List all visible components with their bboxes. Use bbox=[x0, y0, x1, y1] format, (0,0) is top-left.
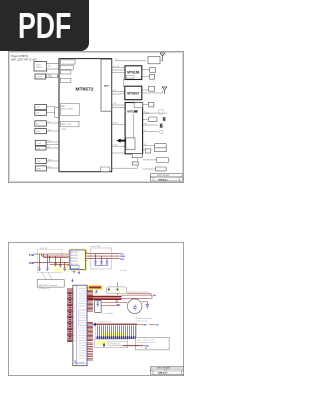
MT6322 sub box top bbox=[134, 103, 142, 108]
soc sub block emi bbox=[60, 70, 71, 74]
connector pins right upper bbox=[87, 288, 93, 311]
svg-text:YUV: YUV bbox=[48, 66, 51, 68]
connector top right highlight bbox=[88, 285, 102, 289]
wire from note box bbox=[127, 293, 151, 295]
wire labels page1 bbox=[47, 59, 147, 168]
wifi band filter bbox=[149, 86, 155, 91]
PDF badge bbox=[0, 0, 89, 51]
note box sim warning bbox=[37, 280, 64, 288]
wire pmic to audio parts bbox=[143, 105, 168, 132]
svg-text:arm: arm bbox=[104, 84, 109, 88]
sim connector body J300 bbox=[73, 285, 87, 366]
svg-text:CMOS: CMOS bbox=[36, 65, 41, 67]
pin header pins bbox=[97, 325, 135, 337]
connector glow bbox=[72, 284, 88, 366]
svg-text:CLK: CLK bbox=[115, 59, 118, 61]
yellow row in L1 bbox=[97, 341, 108, 345]
cap glow a bbox=[107, 288, 111, 292]
connector pin numbers col bbox=[74, 292, 76, 342]
MT6322 charger sub box bbox=[126, 138, 135, 150]
capacitor C302 bbox=[46, 268, 49, 271]
wire sim bbox=[46, 130, 59, 132]
soc sub block dsi bbox=[60, 78, 71, 82]
soc inner text bbox=[61, 105, 74, 131]
antenna ANT2 wifi bbox=[162, 87, 167, 94]
capacitor CA in box bbox=[108, 289, 110, 291]
gnd row bbox=[94, 264, 108, 266]
power bus thin pair bbox=[122, 295, 153, 298]
wire fem to ant1 bbox=[160, 60, 163, 62]
capacitor C303 bbox=[54, 264, 57, 267]
wire into battery bbox=[101, 302, 128, 305]
connector pins left field bbox=[67, 288, 93, 360]
wire keypad bbox=[46, 122, 59, 124]
block usb otg bbox=[35, 146, 46, 150]
svg-text:HS: HS bbox=[144, 130, 146, 132]
pin number specks bbox=[69, 293, 71, 342]
svg-text:V1.0: V1.0 bbox=[164, 370, 167, 372]
arm core column bbox=[101, 59, 112, 111]
microphone circle bbox=[159, 130, 162, 133]
svg-text:MSDC / SDIO: MSDC / SDIO bbox=[61, 124, 72, 126]
block memory LPDDR bbox=[35, 74, 46, 79]
vibrator box pair bbox=[155, 144, 167, 148]
small keypad led box bbox=[145, 149, 150, 153]
svg-text:SIM1/2: SIM1/2 bbox=[36, 131, 41, 133]
wire otg bbox=[46, 147, 59, 149]
MT6166 sub row bbox=[126, 76, 134, 79]
svg-text:AUDIO CODEC: AUDIO CODEC bbox=[61, 108, 74, 111]
sheet border page2 bbox=[8, 242, 183, 375]
wire soc audio bbox=[112, 123, 125, 125]
block camera bbox=[34, 62, 59, 171]
connector inner column divider bbox=[76, 286, 78, 366]
block gpio bbox=[35, 166, 46, 171]
PMIC MT6322 bbox=[125, 103, 143, 154]
leader line 1 bbox=[42, 272, 52, 280]
wire top bus verticals bbox=[39, 254, 68, 268]
svg-text:RF CTRL: RF CTRL bbox=[113, 66, 119, 68]
wire msdc bbox=[46, 142, 59, 145]
power bus bar 2 bbox=[87, 298, 122, 300]
svg-text:KEY: KEY bbox=[36, 123, 39, 125]
capacitor C310 bbox=[94, 262, 108, 265]
pin header top bus bbox=[96, 323, 137, 325]
title block page2 bbox=[150, 367, 183, 375]
headset bars bbox=[160, 123, 162, 128]
usb plug box bbox=[155, 167, 166, 171]
capacitor C304 bbox=[59, 264, 62, 267]
MT6322 inner divider bbox=[133, 114, 135, 139]
cap block box bbox=[95, 301, 101, 313]
soc sub block msdc bbox=[61, 121, 80, 127]
wire lcm bus bbox=[46, 107, 59, 113]
cluster box outline bbox=[38, 250, 63, 273]
cap glow b bbox=[116, 288, 120, 292]
page 1 schematic bbox=[8, 51, 184, 183]
soc sub block pmu if bbox=[101, 167, 110, 172]
wire ic right nets bbox=[87, 254, 120, 259]
svg-text:16B: 16B bbox=[29, 261, 34, 265]
wire top bus horizontals bbox=[42, 256, 69, 264]
wire mem vertical bbox=[123, 79, 125, 88]
svg-text:RCV: RCV bbox=[144, 111, 147, 113]
block sd card bbox=[35, 140, 46, 145]
svg-text:VMC: VMC bbox=[120, 259, 125, 261]
arrow to connector bbox=[93, 323, 96, 326]
yellow highlight row bbox=[103, 333, 126, 337]
svg-text:U301 TVS: U301 TVS bbox=[40, 248, 47, 250]
capacitor left of box bbox=[95, 290, 98, 293]
ic pins right bbox=[85, 252, 87, 261]
wire header to labels bbox=[137, 324, 156, 326]
wire top label bbox=[115, 60, 146, 62]
wire camera to SoC bbox=[47, 65, 60, 68]
svg-text:VB2: VB2 bbox=[117, 304, 121, 306]
sheet border page1 bbox=[8, 51, 183, 182]
ic esd array glow bbox=[69, 249, 86, 270]
wire memory to SoC bbox=[46, 75, 60, 77]
svg-text:Project: MT6572: Project: MT6572 bbox=[11, 55, 29, 58]
svg-text:MT6572 MOBILE: MT6572 MOBILE bbox=[157, 175, 169, 177]
capacitor C311 bbox=[100, 262, 103, 265]
wire battery right bbox=[142, 301, 148, 303]
svg-text:<SIM.Sch>: <SIM.Sch> bbox=[158, 372, 169, 375]
wire uart bbox=[46, 160, 59, 162]
block camera serial sub bbox=[47, 64, 60, 70]
rounded note box bbox=[106, 287, 127, 293]
decoupling group box bbox=[91, 248, 112, 269]
battery connector box bbox=[156, 158, 168, 163]
connector bottom notch bbox=[75, 360, 85, 363]
svg-text:<TOP.Sch>: <TOP.Sch> bbox=[158, 179, 169, 182]
wire net 17B bbox=[34, 253, 69, 255]
capacitor C320 bbox=[97, 301, 100, 307]
block sim bbox=[35, 129, 47, 134]
bottom box L2 bbox=[136, 337, 170, 350]
blue mark in L1 bbox=[103, 344, 105, 347]
bus joint box bbox=[55, 107, 59, 117]
wire rf1 to fem bbox=[142, 70, 150, 77]
connector inner signal rows bbox=[79, 289, 86, 359]
text project title bbox=[11, 55, 37, 61]
svg-text:IN3 OUT3: IN3 OUT3 bbox=[71, 258, 78, 260]
receiver circle bbox=[158, 109, 163, 114]
ic esd array U300 bbox=[70, 250, 85, 269]
SoC MT6572 bbox=[59, 59, 112, 172]
battery circle BT300 bbox=[127, 299, 142, 314]
rf saw filter bbox=[150, 68, 156, 73]
wire pmic right lower bbox=[135, 146, 156, 170]
svg-text:USB: USB bbox=[47, 146, 50, 148]
bottom box L1 bbox=[95, 339, 128, 348]
svg-text:KP: KP bbox=[48, 121, 50, 123]
small box lower mid bbox=[132, 162, 138, 165]
svg-text:SENSOR: SENSOR bbox=[36, 67, 43, 69]
power bus bar 1 bbox=[87, 296, 122, 298]
down arrow mark bbox=[72, 279, 74, 282]
antenna ANT1 bbox=[160, 53, 165, 61]
title2 top row fill bbox=[151, 367, 184, 369]
charger arrow bbox=[120, 140, 126, 142]
connector pins right lower bbox=[87, 322, 93, 340]
rf pa bbox=[150, 74, 155, 79]
svg-text:VB+: VB+ bbox=[153, 295, 157, 297]
capacitor C321 bbox=[146, 302, 150, 309]
yellow cap highlight row bbox=[54, 262, 68, 272]
svg-text:IN2 OUT2: IN2 OUT2 bbox=[71, 255, 78, 257]
svg-text:sim card holder: sim card holder bbox=[102, 313, 113, 315]
wire net 16B bbox=[34, 261, 69, 263]
svg-text:NC pads: NC pads bbox=[120, 270, 127, 272]
svg-text:MT6572: MT6572 bbox=[76, 87, 94, 93]
left box inner texts bbox=[36, 65, 53, 171]
svg-text:IN1 OUT1: IN1 OUT1 bbox=[71, 252, 78, 254]
front end module bbox=[148, 57, 160, 64]
rtc xtal bbox=[149, 102, 154, 107]
wire gpio bbox=[46, 167, 59, 169]
capacitor C305 bbox=[63, 268, 66, 271]
svg-text:GND VCC: GND VCC bbox=[71, 261, 79, 263]
wire soc to pmic bbox=[112, 105, 125, 108]
wire soc bottom bbox=[112, 153, 138, 168]
ic sub row bbox=[71, 266, 79, 269]
capacitor CB in box bbox=[117, 289, 119, 291]
svg-text:VUSB: VUSB bbox=[144, 346, 150, 348]
capacitor C301 bbox=[38, 264, 80, 282]
inner white box L1 bbox=[109, 342, 127, 346]
page 2 schematic bbox=[8, 242, 184, 376]
mark 32k bbox=[134, 110, 137, 112]
RF transceiver MT6166 bbox=[125, 66, 142, 80]
speaker box bbox=[149, 117, 158, 122]
wire soc to mt6627 bbox=[112, 92, 125, 95]
pin header outline bbox=[96, 324, 137, 339]
wire soc usb bbox=[112, 145, 125, 147]
wire into L2 bbox=[123, 345, 143, 347]
svg-text:SPK: SPK bbox=[144, 123, 147, 125]
connector inner dividers bbox=[79, 310, 87, 325]
svg-text:CTP: CTP bbox=[36, 113, 39, 115]
box below pmic bbox=[132, 154, 142, 158]
speaker bars bbox=[163, 117, 164, 121]
block memory label sub bbox=[46, 74, 57, 78]
svg-text:6 PIN plus CD: 6 PIN plus CD bbox=[39, 288, 50, 290]
wire mt6627 to ant2 bbox=[142, 90, 163, 93]
wire cap stubs right box bbox=[96, 254, 108, 262]
battery cap bbox=[133, 305, 137, 311]
wire tp bus bbox=[55, 108, 59, 110]
block uart bbox=[35, 158, 46, 163]
ground sym1 bbox=[73, 270, 76, 273]
title block page1 bbox=[151, 174, 183, 181]
block lcm bbox=[35, 105, 47, 110]
ic pins left bbox=[69, 252, 88, 265]
block keypad bbox=[35, 121, 47, 126]
svg-text:WDT_2014 TOP V2 (V5): WDT_2014 TOP V2 (V5) bbox=[11, 59, 37, 61]
svg-text:MT6627: MT6627 bbox=[127, 91, 139, 95]
svg-text:CONN: CONN bbox=[61, 129, 67, 131]
pin header bottom dots bbox=[97, 336, 136, 339]
connector pins right bottom bbox=[87, 343, 93, 360]
block touch panel bbox=[35, 110, 47, 115]
svg-text:17B: 17B bbox=[29, 253, 34, 257]
ic inner text bbox=[71, 252, 79, 266]
capacitor C312 bbox=[106, 262, 109, 265]
ground sym2 bbox=[78, 270, 81, 274]
connectivity MT6627 bbox=[125, 86, 142, 100]
red bar in highlight bbox=[89, 286, 101, 288]
wire soc to rf1 bbox=[112, 68, 126, 73]
wire drop into box bbox=[116, 283, 118, 296]
svg-text:MT6166: MT6166 bbox=[127, 70, 139, 74]
soc sub block mipi bbox=[60, 60, 75, 64]
soc sub block abb bbox=[61, 104, 80, 116]
soc sub block isp bbox=[60, 65, 73, 69]
svg-text:VIB: VIB bbox=[144, 144, 146, 146]
